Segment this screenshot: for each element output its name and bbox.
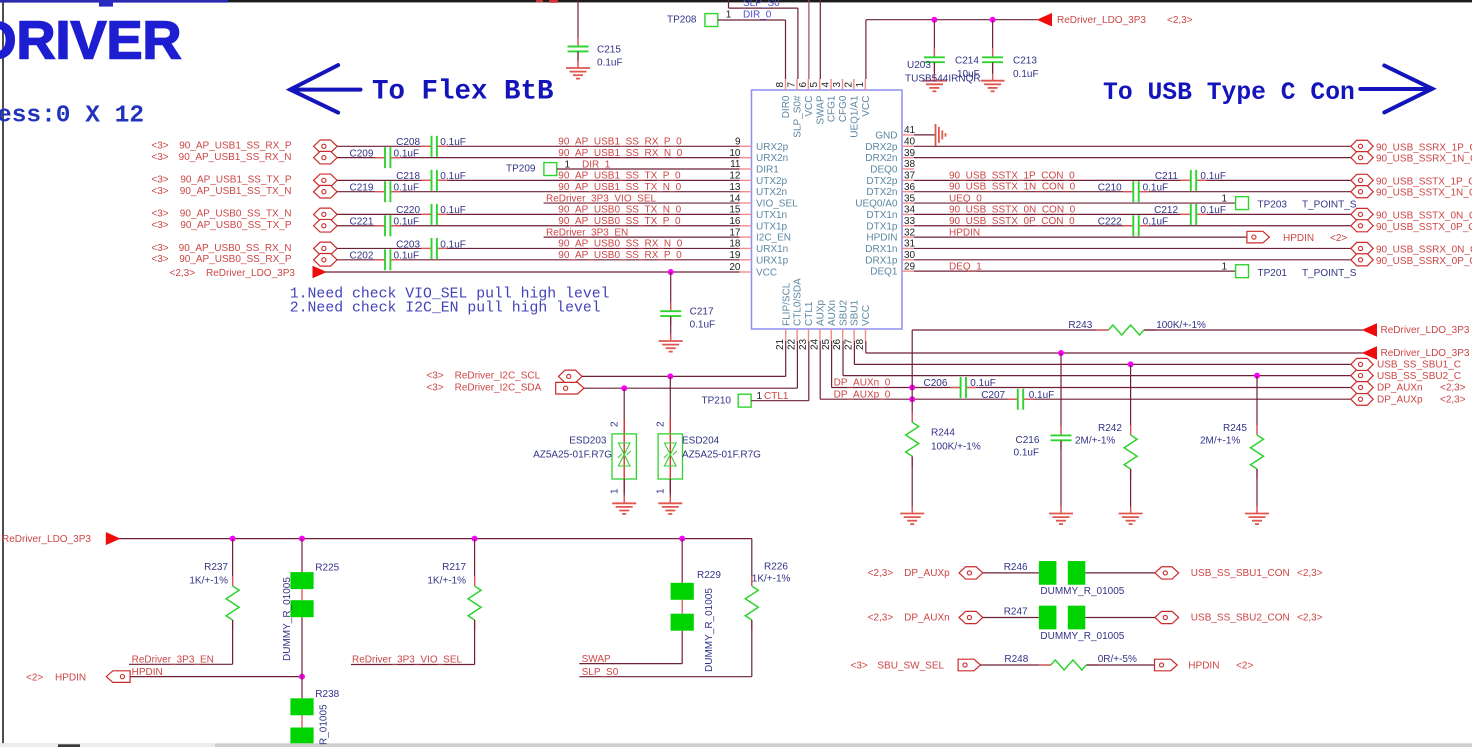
arrow to usb type c con [1360,66,1432,113]
wire ReDriver_3P3_EN [544,236,740,238]
capacitor C221 [375,225,385,227]
wire UEQ_0 to TP203 [914,202,1236,204]
net SLP_S0 wire [728,0,730,8]
ground under ESD203 [623,496,625,503]
svg-text:90_USB_SSRX_0N_C: 90_USB_SSRX_0N_C [1376,244,1472,255]
svg-text:90_USB_SSTX_1N_CON_0: 90_USB_SSTX_1N_CON_0 [949,182,1076,193]
port HPDIN bottom right [1155,659,1178,671]
pin 26 SBU2 [842,329,844,341]
ground under C216 [1060,507,1062,514]
svg-text:<2>: <2> [26,672,43,683]
wire 90_AP_USB1_SS_TX_P_0 [337,179,431,181]
svg-text:22: 22 [787,338,798,350]
pin 10 URX2n [740,157,752,159]
pin 13 UTX2n [740,191,752,193]
svg-text:0.1uF: 0.1uF [440,205,466,216]
svg-text:4: 4 [821,82,832,88]
IC U203 TUSB544IRNQR body [752,90,903,329]
port USB_SS_SBU1_C [1351,358,1373,370]
svg-text:TP209: TP209 [506,163,536,174]
svg-text:TP203: TP203 [1258,200,1288,211]
svg-text:0.1uF: 0.1uF [970,378,996,389]
port 90_USB_SSTX_0P_C [1351,220,1373,232]
svg-text:R246: R246 [1004,562,1028,573]
capacitor C207 [1008,398,1018,400]
wire HPDIN right [914,236,1247,238]
svg-text:<2,3>: <2,3> [1167,15,1193,26]
pin 37 DTX2p [902,179,914,181]
wire pin6 VCC to top [808,0,810,79]
svg-text:DIR1: DIR1 [756,165,779,176]
svg-text:C207: C207 [981,390,1005,401]
svg-text:R248: R248 [1004,654,1028,665]
pin 6 VCC [807,79,809,90]
svg-text:3: 3 [832,82,843,88]
wire HPDIN bottom [130,676,302,678]
svg-text:<2,3>: <2,3> [1297,613,1323,624]
svg-text:0.1uF: 0.1uF [1143,183,1169,194]
svg-text:90_AP_USB1_SS_RX_P: 90_AP_USB1_SS_RX_P [179,141,292,152]
svg-text:DEQ_1: DEQ_1 [949,261,982,272]
svg-text:DTX2p: DTX2p [866,176,898,187]
junction [230,536,236,542]
pin 38 DEQ0 [902,168,914,170]
port DP_AUXp right [1351,393,1373,405]
svg-text:37: 37 [904,171,916,182]
capacitor C214 [933,20,935,57]
pin 5 SWAP [819,79,821,90]
capacitor C202 [375,259,385,261]
svg-text:CTL0/SDA: CTL0/SDA [793,278,804,326]
pin 39 DRX2n [902,157,914,159]
pin 17 I2C_EN [740,236,752,238]
junction [472,536,478,542]
capacitor C206 [950,387,960,389]
svg-text:R245: R245 [1223,423,1247,434]
port 90_USB_SSRX_1N_C [1351,152,1373,164]
svg-text:0R/+-5%: 0R/+-5% [1098,654,1137,665]
test point TP203 [1236,197,1249,210]
pin 34 DTX1n [902,213,914,215]
capacitor C217 [670,272,672,311]
svg-text:<2,3>: <2,3> [1297,568,1323,579]
svg-text:UEQ1/A1: UEQ1/A1 [850,95,861,138]
junction [990,17,996,23]
svg-text:0.1uF: 0.1uF [440,171,466,182]
svg-text:90_AP_USB1_SS_TX_N_0: 90_AP_USB1_SS_TX_N_0 [558,182,681,193]
svg-text:CTL1: CTL1 [804,301,815,326]
svg-text:ess:0 X 12: ess:0 X 12 [0,103,144,130]
svg-text:90_AP_USB0_SS_RX_N_0: 90_AP_USB0_SS_RX_N_0 [558,239,682,250]
svg-text:DUMMY_R_01005: DUMMY_R_01005 [1040,631,1124,642]
svg-text:C212: C212 [1154,205,1178,216]
wire CTL1 [751,400,809,402]
svg-text:C214: C214 [955,56,979,67]
pin 36 DTX2n [902,191,914,193]
svg-text:CFG1: CFG1 [827,95,838,122]
pin 30 DRX1p [902,259,914,261]
svg-text:<2,3>: <2,3> [868,613,894,624]
pin 3 CFG0 [842,79,844,90]
capacitor C208 [421,145,431,147]
svg-text:DRX2n: DRX2n [865,153,897,164]
pin 4 CFG1 [830,79,832,90]
svg-text:AUXn: AUXn [827,300,838,326]
capacitor C222 [1123,225,1133,227]
port 90_USB_SSTX_0N_C [1351,208,1373,220]
svg-text:R225: R225 [315,562,339,573]
svg-text:SBU_SW_SEL: SBU_SW_SEL [877,660,944,671]
capacitor C219 [375,191,385,193]
svg-text:2M/+-1%: 2M/+-1% [1200,436,1240,447]
pin 25 AUXn [830,329,832,341]
svg-text:C206: C206 [923,378,947,389]
svg-text:90_AP_USB1_SS_TX_P_0: 90_AP_USB1_SS_TX_P_0 [558,171,681,182]
svg-text:<3>: <3> [151,209,168,220]
capacitor C209 [375,157,385,159]
svg-text:R242: R242 [1098,423,1122,434]
svg-text:21: 21 [775,338,786,350]
svg-text:R229: R229 [697,570,721,581]
resistor R226 [751,539,753,586]
svg-text:<2,3>: <2,3> [868,568,894,579]
svg-text:U203: U203 [907,60,931,71]
svg-text:1: 1 [610,488,621,494]
svg-text:AUXp: AUXp [816,299,827,326]
pin 20 VCC [740,271,752,273]
junction [909,385,915,391]
svg-text:ReDriver_I2C_SCL: ReDriver_I2C_SCL [455,371,541,382]
svg-text:0.1uF: 0.1uF [394,148,420,159]
svg-text:ReDriver_LDO_3P3: ReDriver_LDO_3P3 [1381,348,1470,359]
svg-text:90_AP_USB1_SS_RX_P_0: 90_AP_USB1_SS_RX_P_0 [558,137,682,148]
wire SWAP [579,663,682,665]
svg-text:ReDriver_LDO_3P3: ReDriver_LDO_3P3 [1381,325,1470,336]
svg-text:0.1uF: 0.1uF [394,217,420,228]
capacitor C210 [1123,191,1133,193]
pin 19 URX1p [740,259,752,261]
svg-text:90_USB_SSTX_0N_C: 90_USB_SSTX_0N_C [1376,210,1472,221]
svg-text:TP201: TP201 [1258,268,1288,279]
svg-text:ReDriver_3P3_EN: ReDriver_3P3_EN [546,227,628,238]
wire to port 90_USB_SSTX_1P_C [914,179,1191,181]
pin 29 DEQ1 [902,270,914,272]
arrow to flex btb [290,65,360,113]
capacitor C218 [421,179,431,181]
ground under R244 [911,507,913,514]
svg-text:VCC: VCC [804,96,815,117]
svg-text:90_AP_USB0_SS_TX_N: 90_AP_USB0_SS_TX_N [180,209,292,220]
wire I2C_SCL [582,375,786,377]
svg-text:0.1uF: 0.1uF [690,320,716,331]
svg-text:ReDriver_LDO_3P3: ReDriver_LDO_3P3 [2,534,91,545]
wire DP_AUXp_0 [819,341,821,399]
svg-text:SWAP: SWAP [815,95,826,124]
svg-text:ReDriver_LDO_3P3: ReDriver_LDO_3P3 [206,268,295,279]
svg-text:C219: C219 [349,183,373,194]
wire to port 90_USB_SSTX_1N_C [914,191,1133,193]
resistor R243 [911,330,913,399]
svg-text:90_USB_SSTX_0P_C: 90_USB_SSTX_0P_C [1376,222,1472,233]
pin 11 DIR1 [740,168,752,170]
resistor R242 [1130,364,1132,435]
svg-text:HPDIN: HPDIN [866,233,897,244]
svg-text:ESD204: ESD204 [682,436,720,447]
svg-text:URX1p: URX1p [756,255,789,266]
svg-text:90_AP_USB0_SS_TX_P: 90_AP_USB0_SS_TX_P [180,220,292,231]
svg-text:DP_AUXp: DP_AUXp [1377,394,1423,405]
svg-text:2: 2 [656,421,667,427]
svg-text:To Flex BtB: To Flex BtB [372,77,554,108]
svg-text:HPDIN: HPDIN [55,672,86,683]
svg-text:ReDriver_LDO_3P3: ReDriver_LDO_3P3 [1057,15,1146,26]
pin 24 AUXp [819,329,821,341]
sheet top border bar [0,0,1472,2]
svg-text:30: 30 [904,250,916,261]
svg-text:DEQ0: DEQ0 [870,165,898,176]
svg-text:34: 34 [904,205,916,216]
svg-text:VCC: VCC [861,305,872,326]
capacitor C203 [421,247,431,249]
junction [931,17,937,23]
pin 40 DRX2p [902,145,914,147]
test point TP201 [1236,265,1249,278]
svg-text:33: 33 [904,216,916,227]
svg-text:UTX2p: UTX2p [756,176,788,187]
svg-text:1K/+-1%: 1K/+-1% [189,576,228,587]
junction [909,396,915,402]
ground under C213 [992,74,994,81]
dummy resistor R238 [301,677,303,699]
svg-text:DRIVER: DRIVER [0,11,182,71]
junction [299,674,305,680]
svg-text:DTX1p: DTX1p [866,221,898,232]
svg-text:AZ5A25-01F.R7G: AZ5A25-01F.R7G [533,450,612,461]
dummy resistor R246 [983,572,1039,574]
wire to port 90_USB_SSRX_1P_C [914,145,1351,147]
pin 14 VIO_SEL [740,202,752,204]
svg-text:90_USB_SSRX_0P_C: 90_USB_SSRX_0P_C [1376,256,1472,267]
svg-text:100K/+-1%: 100K/+-1% [1156,320,1206,331]
pin 32 HPDIN [902,236,914,238]
pin 35 UEQ0/A0 [902,202,914,204]
junction [668,269,674,275]
svg-text:C202: C202 [349,251,373,262]
capacitor C212 [1181,213,1191,215]
svg-text:<3>: <3> [426,371,443,382]
power port ReDriver_LDO_3P3 r243 [1363,324,1377,336]
junction [1254,373,1260,379]
svg-text:2M/+-1%: 2M/+-1% [1075,436,1115,447]
bottom scrollbar [0,743,1472,747]
svg-text:SLP_S0: SLP_S0 [582,667,619,678]
svg-text:DTX2n: DTX2n [866,187,897,198]
port 90_USB_SSRX_1P_C [1351,140,1373,152]
svg-text:DUMMY_R_01005: DUMMY_R_01005 [282,577,293,661]
resistor R248 [981,664,1051,666]
svg-text:<2,3>: <2,3> [170,268,196,279]
pin 9 URX2p [740,145,752,147]
svg-text:SBU1: SBU1 [850,299,861,326]
capacitor C215 [577,0,579,46]
wire to port 90_USB_SSRX_0N_C [914,247,1351,249]
svg-text:R217: R217 [442,562,466,573]
wire SBU2 row [842,341,844,376]
svg-text:I2C_EN: I2C_EN [756,233,791,244]
svg-text:39: 39 [904,148,916,159]
wire 90_AP_USB0_SS_TX_N_0 [337,213,431,215]
svg-text:0.1uF: 0.1uF [1200,171,1226,182]
port HPDIN right [1247,231,1270,243]
svg-text:36: 36 [904,182,916,193]
svg-text:90_AP_USB1_SS_TX_P: 90_AP_USB1_SS_TX_P [180,175,292,186]
svg-text:6: 6 [798,82,809,88]
svg-text:DP_AUXn: DP_AUXn [904,613,950,624]
svg-text:DIR0: DIR0 [781,95,792,118]
pin 41 GND [902,134,914,136]
port 90_USB_SSRX_0P_C [1351,254,1373,266]
svg-text:0.1uF: 0.1uF [394,183,420,194]
svg-text:CFG0: CFG0 [838,95,849,122]
wire 90_AP_USB0_SS_TX_P_0 [337,225,385,227]
wire 90_AP_USB1_SS_RX_P_0 [337,145,431,147]
svg-text:DP_AUXp_0: DP_AUXp_0 [834,389,891,400]
svg-text:URX2p: URX2p [756,142,789,153]
power port ReDriver_LDO_3P3 row2 [1363,347,1377,359]
capacitor C220 [421,213,431,215]
svg-text:ReDriver_3P3_EN: ReDriver_3P3_EN [132,655,214,666]
resistor R244 [911,399,913,422]
svg-text:DUMMY_R_01005: DUMMY_R_01005 [1040,586,1124,597]
svg-text:ReDriver_3P3_VIO_SEL: ReDriver_3P3_VIO_SEL [352,655,462,666]
svg-text:DRX1p: DRX1p [865,255,898,266]
svg-text:SWAP: SWAP [582,654,611,665]
pin 31 DRX1n [902,247,914,249]
svg-text:C222: C222 [1098,217,1122,228]
junction [679,536,685,542]
svg-text:DIR_0: DIR_0 [743,9,772,20]
svg-text:UTX1p: UTX1p [756,221,788,232]
svg-text:C211: C211 [1155,171,1179,182]
svg-text:R_01005: R_01005 [319,704,330,745]
ground under C214 [933,74,935,81]
wire VCC pin28 to LDO [865,341,867,353]
svg-text:40: 40 [904,137,916,148]
svg-text:29: 29 [904,261,916,272]
svg-text:28: 28 [855,338,866,350]
svg-text:R243: R243 [1068,320,1092,331]
svg-text:USB_SS_SBU2_C: USB_SS_SBU2_C [1377,371,1461,382]
svg-text:C208: C208 [396,137,420,148]
svg-text:TP210: TP210 [702,395,732,406]
svg-text:T_POINT_S: T_POINT_S [1302,268,1357,279]
svg-text:<2>: <2> [1236,660,1253,671]
pin 18 URX1n [740,247,752,249]
wire 90_AP_USB0_SS_RX_N_0 [337,247,431,249]
svg-text:DP_AUXn: DP_AUXn [1377,383,1423,394]
svg-text:25: 25 [821,338,832,350]
ground under R242 [1130,507,1132,514]
wire DP_AUXn_0 [831,341,833,388]
port USB_SS_SBU1_CON [1155,567,1179,579]
capacitor C216 [1060,353,1062,435]
svg-text:<3>: <3> [151,254,168,265]
junction [667,373,673,379]
svg-text:23: 23 [798,338,809,350]
svg-text:24: 24 [809,338,820,350]
svg-text:7: 7 [786,82,797,88]
svg-text:0.1uF: 0.1uF [440,239,466,250]
svg-text:C217: C217 [690,307,714,318]
svg-text:<3>: <3> [151,243,168,254]
pin 23 CTL1 [808,329,810,341]
wire to port 90_USB_SSRX_1N_C [914,157,1351,159]
wire 90_AP_USB1_SS_RX_N_0 [337,157,385,159]
svg-text:USB_SS_SBU1_CON: USB_SS_SBU1_CON [1191,568,1290,579]
svg-text:2: 2 [843,82,854,88]
svg-text:ReDriver_I2C_SDA: ReDriver_I2C_SDA [455,383,542,394]
junction [1058,350,1064,356]
wire 90_AP_USB1_SS_TX_N_0 [337,191,385,193]
svg-text:C209: C209 [349,148,373,159]
svg-text:ESD203: ESD203 [569,436,607,447]
pin 27 SBU1 [853,329,855,341]
resistor R245 [1256,376,1258,435]
port 90_USB_SSTX_1P_C [1351,174,1373,186]
pin 7 SLP_S0# [796,79,798,90]
svg-text:90_AP_USB0_SS_TX_N_0: 90_AP_USB0_SS_TX_N_0 [558,205,681,216]
svg-text:DTX1n: DTX1n [866,210,897,221]
svg-text:1: 1 [726,9,732,20]
svg-text:<3>: <3> [151,220,168,231]
wire I2C_SDA [584,387,797,389]
svg-text:C216: C216 [1016,435,1040,446]
svg-text:<3>: <3> [151,152,168,163]
svg-text:<2,3>: <2,3> [1440,383,1466,394]
svg-text:DP_AUXn_0: DP_AUXn_0 [834,378,891,389]
svg-text:0.1uF: 0.1uF [1013,69,1039,80]
wire 90_AP_USB0_SS_RX_P_0 [337,259,385,261]
svg-text:GND: GND [875,130,897,141]
svg-text:2: 2 [610,421,621,427]
pin 8 DIR0 [785,79,787,90]
svg-text:1: 1 [656,488,667,494]
svg-text:0.1uF: 0.1uF [1143,217,1169,228]
pin 21 FLIP/SCL [785,329,787,341]
resistor R237 [232,539,234,586]
svg-text:41: 41 [904,125,916,136]
svg-text:31: 31 [904,239,916,250]
svg-text:C213: C213 [1013,56,1037,67]
svg-text:90_USB_SSRX_1N_C: 90_USB_SSRX_1N_C [1376,154,1472,165]
svg-text:DIR_1: DIR_1 [582,160,611,171]
svg-text:AZ5A25-01F.R7G: AZ5A25-01F.R7G [682,450,761,461]
svg-text:<3>: <3> [151,141,168,152]
wire LDO rail bottom [119,538,752,540]
svg-text:90_USB_SSTX_1P_CON_0: 90_USB_SSTX_1P_CON_0 [949,170,1075,181]
capacitor C211 [1181,179,1191,181]
svg-text:URX1n: URX1n [756,244,788,255]
svg-text:USB_SS_SBU2_CON: USB_SS_SBU2_CON [1191,613,1290,624]
svg-text:32: 32 [904,227,916,238]
sheet left border [2,2,4,743]
svg-text:TP208: TP208 [667,15,697,26]
svg-text:HPDIN: HPDIN [1188,660,1219,671]
svg-text:VCC: VCC [861,96,872,117]
svg-text:DUMMY_R_01005: DUMMY_R_01005 [704,588,715,672]
svg-text:C210: C210 [1098,183,1122,194]
pin 15 UTX1n [740,213,752,215]
